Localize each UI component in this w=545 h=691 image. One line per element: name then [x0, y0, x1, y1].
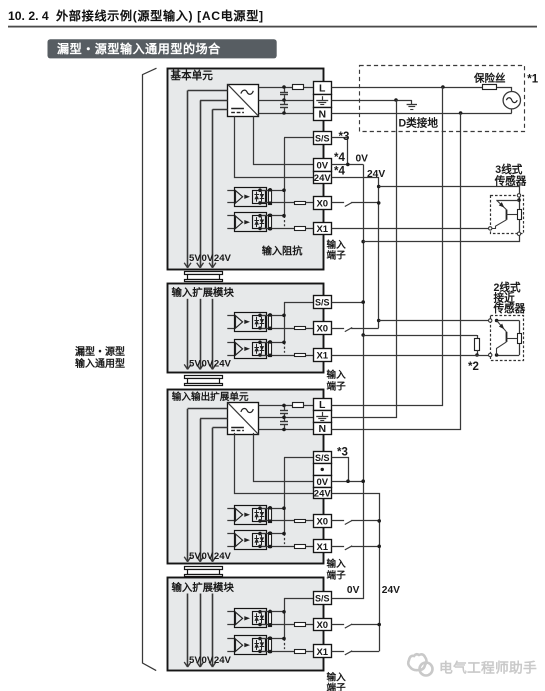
svg-text:*1: *1 — [527, 73, 538, 85]
svg-text:输入: 输入 — [327, 558, 347, 570]
svg-text:端子: 端子 — [327, 380, 347, 392]
svg-text:X0: X0 — [316, 324, 328, 335]
svg-text:24V: 24V — [214, 253, 232, 264]
svg-text:输入: 输入 — [327, 369, 347, 381]
svg-text:0V: 0V — [356, 154, 369, 165]
svg-text:端子: 端子 — [327, 250, 347, 262]
svg-text:5V: 5V — [189, 253, 201, 264]
svg-text:3线式: 3线式 — [495, 163, 522, 176]
svg-text:基本单元: 基本单元 — [170, 69, 214, 82]
svg-text:X0: X0 — [316, 199, 328, 210]
svg-text:24V: 24V — [314, 488, 332, 499]
svg-text:输入: 输入 — [327, 239, 347, 251]
svg-text:X1: X1 — [316, 542, 328, 553]
svg-text:0V: 0V — [316, 160, 328, 171]
svg-text:S/S: S/S — [315, 298, 330, 308]
svg-text:端子: 端子 — [327, 569, 347, 581]
svg-text:X0: X0 — [316, 620, 328, 631]
svg-text:0V: 0V — [316, 477, 328, 488]
svg-text:S/S: S/S — [315, 594, 330, 604]
svg-text:*2: *2 — [468, 361, 479, 373]
svg-text:输入: 输入 — [327, 672, 347, 684]
svg-text:24V: 24V — [214, 655, 232, 666]
svg-text:保险丝: 保险丝 — [473, 71, 506, 84]
svg-text:输入通用型: 输入通用型 — [75, 357, 125, 370]
svg-text:5V: 5V — [189, 551, 201, 562]
svg-text:0V: 0V — [202, 655, 214, 666]
svg-text:5V: 5V — [189, 655, 201, 666]
svg-text:输入输出扩展单元: 输入输出扩展单元 — [172, 391, 249, 403]
svg-text:24V: 24V — [382, 585, 400, 596]
svg-text:24V: 24V — [367, 169, 385, 180]
svg-text:电气工程师助手: 电气工程师助手 — [439, 660, 537, 676]
svg-text:漏型・源型: 漏型・源型 — [75, 345, 125, 358]
svg-text:*3: *3 — [339, 131, 350, 143]
svg-text:24V: 24V — [214, 551, 232, 562]
svg-text:L: L — [319, 83, 326, 95]
svg-text:S/S: S/S — [315, 453, 330, 463]
svg-text:S/S: S/S — [315, 133, 330, 143]
svg-text:24V: 24V — [214, 358, 232, 369]
svg-text:外部接线示例(源型输入) [AC电源型]: 外部接线示例(源型输入) [AC电源型] — [55, 8, 264, 23]
svg-text:L: L — [319, 399, 326, 411]
svg-text:D类接地: D类接地 — [399, 117, 439, 130]
svg-text:0V: 0V — [202, 253, 214, 264]
svg-text:输入阻抗: 输入阻抗 — [262, 245, 304, 258]
svg-text:*4: *4 — [334, 165, 345, 177]
svg-text:*3: *3 — [337, 447, 348, 459]
svg-text:10. 2. 4: 10. 2. 4 — [8, 9, 49, 23]
svg-text:漏型・源型输入通用型的场合: 漏型・源型输入通用型的场合 — [57, 41, 221, 56]
svg-text:0V: 0V — [347, 585, 360, 596]
svg-text:端子: 端子 — [327, 682, 347, 691]
svg-text:X1: X1 — [316, 647, 328, 658]
svg-text:输入扩展模块: 输入扩展模块 — [172, 581, 235, 594]
svg-text:N: N — [318, 423, 326, 435]
svg-text:*4: *4 — [334, 152, 345, 164]
svg-text:N: N — [318, 109, 326, 121]
svg-text:X0: X0 — [316, 517, 328, 528]
svg-text:0V: 0V — [202, 551, 214, 562]
svg-text:X1: X1 — [316, 351, 328, 362]
svg-text:输入扩展模块: 输入扩展模块 — [172, 286, 235, 299]
svg-text:0V: 0V — [202, 358, 214, 369]
svg-text:传感器: 传感器 — [494, 174, 527, 187]
svg-text:X1: X1 — [316, 224, 328, 235]
svg-text:传感器: 传感器 — [493, 302, 526, 315]
svg-text:24V: 24V — [314, 173, 332, 184]
svg-text:5V: 5V — [189, 358, 201, 369]
